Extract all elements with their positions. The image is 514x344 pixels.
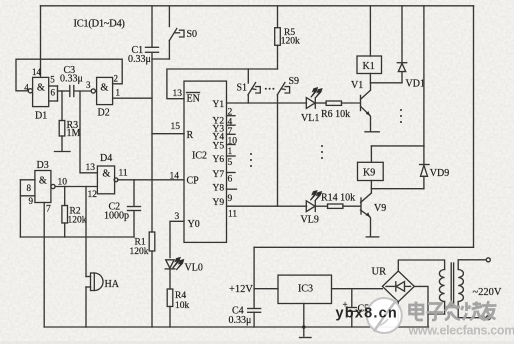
svg-text:VD1: VD1: [406, 79, 425, 90]
pin stub Y8: [227, 188, 237, 190]
svg-text:120k: 120k: [130, 247, 149, 257]
wire D3 output to D4: [55, 186, 97, 188]
wire stub to ground rail: [427, 314, 429, 327]
wire VL0 to R4: [169, 269, 171, 289]
bridge rectifier UR: [382, 271, 414, 302]
switch S1: [247, 69, 249, 83]
wire VL1 to R6: [315, 102, 326, 104]
svg-text:HA: HA: [105, 279, 120, 290]
pin stub Y3: [227, 124, 236, 126]
LED VL9: [306, 201, 315, 212]
svg-text:7: 7: [228, 127, 233, 137]
svg-text:D1: D1: [35, 111, 47, 122]
capacitor C2: [133, 180, 135, 206]
wire +12V stub to IC3: [254, 288, 278, 290]
resistor R5: [277, 6, 279, 28]
capacitor C4: [248, 308, 261, 310]
svg-text:S9: S9: [289, 76, 300, 87]
svg-text:9: 9: [228, 194, 233, 204]
svg-text:0.33μ: 0.33μ: [128, 54, 151, 65]
wire +12V drop to IC3: [253, 247, 255, 308]
ground IC3: [300, 337, 312, 339]
LED VL0: [166, 260, 174, 268]
resistor R1: [149, 232, 155, 251]
svg-text:V9: V9: [374, 203, 386, 214]
wire R4 to ground rail: [169, 307, 171, 328]
svg-text:11: 11: [119, 168, 128, 178]
svg-text:R: R: [187, 130, 194, 141]
diode VD9: [423, 146, 425, 164]
wire R net to oscillator: [152, 133, 184, 135]
wire gnd-side horizontal net: [20, 236, 134, 238]
svg-text:~220V: ~220V: [473, 287, 502, 298]
wire V9 collector to K9: [370, 181, 372, 194]
svg-text:V1: V1: [351, 80, 363, 91]
svg-text:1M: 1M: [67, 128, 81, 139]
svg-text:IC2: IC2: [192, 151, 207, 162]
svg-text:11: 11: [228, 210, 237, 220]
wire V9 emitter to ground: [370, 217, 371, 236]
wire D1 output feedback loop: [16, 59, 122, 91]
svg-text:&: &: [39, 176, 47, 187]
wire D3 input tie down: [19, 180, 21, 237]
relay K9: [358, 162, 384, 180]
svg-text:K1: K1: [363, 61, 375, 72]
wire D2 output: [113, 97, 152, 99]
svg-text:1: 1: [116, 88, 121, 98]
diode VD1: [401, 6, 403, 63]
wire IC3 out right: [332, 288, 383, 290]
svg-text:VL9: VL9: [301, 215, 319, 226]
svg-text:3: 3: [86, 80, 91, 90]
speaker HA: [85, 187, 87, 277]
svg-text:VD9: VD9: [430, 168, 449, 179]
pin stub Y4: [227, 133, 236, 135]
pin 4 bubble D1: [28, 89, 32, 93]
wire V1 collector to K1: [370, 83, 372, 90]
watermark circle logo: [367, 298, 402, 333]
transformer T secondary: [439, 270, 444, 302]
dots right of IC2: [250, 153, 252, 155]
LED VL9 arrows: [310, 191, 316, 200]
capacitor C5: [351, 289, 353, 307]
svg-text:&: &: [37, 82, 45, 93]
wire R1 to ground rail: [151, 251, 153, 327]
wire R6 to V1 base: [342, 102, 360, 104]
svg-text:Y0: Y0: [188, 219, 200, 230]
svg-text:&: &: [101, 82, 109, 93]
svg-text:120k: 120k: [281, 36, 300, 46]
svg-text:6: 6: [228, 175, 233, 185]
capacitor C3: [69, 86, 71, 97]
svg-text:Y1: Y1: [213, 100, 225, 110]
wire bridge bottom to ground rail: [397, 302, 399, 327]
svg-text:8: 8: [27, 183, 32, 193]
transistor V1: [360, 96, 362, 111]
svg-text:+12V: +12V: [229, 284, 253, 295]
svg-text:0.33μ: 0.33μ: [60, 74, 83, 85]
gate D4: [97, 166, 114, 194]
svg-text:1000p: 1000p: [104, 211, 129, 222]
pin 10 bubble D3: [51, 184, 55, 188]
transformer core: [450, 263, 452, 305]
svg-text:13: 13: [173, 89, 183, 99]
svg-text:9: 9: [29, 196, 34, 206]
svg-text:10k: 10k: [175, 301, 190, 311]
pin 6 stub D1: [49, 100, 58, 102]
svg-text:0.33μ: 0.33μ: [229, 315, 252, 326]
wire primary top to terminal: [458, 260, 486, 270]
pin stub Y5: [227, 144, 236, 146]
pin 8 stub D3: [20, 179, 35, 181]
svg-text:5: 5: [228, 158, 233, 168]
wire oscillator node vertical: [151, 54, 153, 233]
wire D4 output to CP: [118, 179, 184, 181]
svg-text:R4: R4: [175, 291, 186, 301]
switch S9: [277, 83, 285, 95]
wire R14 to V9 base: [343, 205, 360, 207]
wire +12V horizontal return: [254, 246, 473, 248]
wire Y9 net: [227, 205, 307, 207]
pin stub Y6: [227, 155, 236, 157]
wire primary bottom to terminal: [458, 302, 486, 318]
ground V9: [366, 236, 378, 238]
svg-text:S0: S0: [187, 29, 198, 40]
svg-text:Y6: Y6: [213, 155, 225, 165]
resistor R14: [328, 204, 343, 208]
capacitor C1: [151, 6, 153, 47]
watermark CJK char you: [481, 301, 497, 320]
switch S0: [168, 6, 170, 27]
wire S9 down to Y9: [277, 95, 279, 206]
svg-text:Y8: Y8: [213, 184, 225, 194]
svg-text:VL0: VL0: [185, 263, 203, 274]
wire bridge right to transformer bottom: [414, 286, 444, 314]
watermark CJK char fa: [445, 301, 460, 320]
svg-text:12: 12: [88, 190, 98, 200]
svg-text:15: 15: [171, 122, 181, 132]
ground V1: [365, 131, 379, 133]
relay K1: [357, 56, 382, 74]
wire Y1 net: [227, 102, 307, 104]
svg-text:UR: UR: [372, 267, 387, 278]
svg-text:&: &: [103, 169, 111, 180]
svg-text:R1: R1: [135, 238, 146, 248]
svg-text:EN: EN: [187, 94, 200, 105]
wire S0 to C1 bottom: [152, 58, 169, 60]
LED VL0 arrows: [173, 258, 180, 269]
LED VL1: [306, 98, 315, 109]
svg-text:IC3: IC3: [298, 284, 313, 295]
svg-text:www.elecfans.com: www.elecfans.com: [408, 324, 514, 338]
gate D1: [33, 77, 49, 106]
wire top +12V rail: [41, 5, 474, 7]
scan bottom edge: [0, 341, 514, 344]
svg-text:120k: 120k: [68, 216, 87, 226]
pin 13 wire D4: [80, 91, 97, 173]
pin 3 bubble D2: [91, 89, 95, 93]
wire ground bottom rail: [44, 326, 428, 328]
svg-text:5: 5: [50, 74, 55, 84]
svg-text:7: 7: [46, 204, 51, 214]
svg-text:13: 13: [86, 163, 96, 173]
svg-text:D4: D4: [100, 153, 112, 164]
svg-text:IC1(D1~D4): IC1(D1~D4): [74, 19, 126, 30]
svg-text:ybx8.cn: ybx8.cn: [336, 306, 398, 322]
wire right +12V rail vertical: [473, 6, 475, 248]
wire D3 pin7 ground: [43, 203, 45, 328]
svg-text:14: 14: [32, 67, 42, 77]
watermark CJK char dian: [410, 302, 424, 321]
wire EN net: [167, 69, 278, 99]
svg-text:4: 4: [228, 118, 233, 128]
transformer T primary: [458, 270, 463, 302]
IC2 box: [184, 81, 227, 242]
svg-text:CP: CP: [187, 176, 200, 187]
wire IC3 ground pin: [303, 304, 305, 337]
wire Y0 net: [170, 221, 184, 257]
dots below VD1: [400, 109, 402, 111]
svg-text:3: 3: [175, 212, 180, 222]
pin stub Y2: [227, 115, 236, 117]
svg-text:Y7: Y7: [213, 170, 225, 180]
wire V1 emitter to ground: [369, 115, 372, 131]
resistor R4: [167, 289, 173, 307]
wire VD9 bottom to K9 bottom: [371, 188, 424, 190]
transistor V9: [360, 198, 362, 214]
pin 9 stub D3: [20, 195, 35, 197]
LED VL1 arrows: [311, 88, 317, 97]
pin 11 bubble D4: [114, 178, 118, 182]
dots between S1 S9: [265, 88, 267, 90]
resistor R6: [326, 101, 341, 105]
svg-text:Y9: Y9: [213, 198, 225, 208]
svg-text:D3: D3: [37, 160, 49, 171]
svg-text:K9: K9: [363, 168, 375, 179]
wire D1 pin14 to rail: [40, 6, 42, 78]
gate D2: [97, 77, 113, 104]
wire D1 to C3: [58, 90, 70, 92]
svg-text:2: 2: [114, 74, 119, 84]
IC3 box: [278, 275, 332, 303]
svg-text:S1: S1: [237, 83, 248, 94]
wire K9 top to rail drop: [371, 145, 424, 147]
svg-text:R6 10k: R6 10k: [321, 109, 350, 120]
wire C3 to D2 input: [74, 90, 91, 92]
svg-text:VL1: VL1: [301, 113, 319, 124]
svg-text:R14 10k: R14 10k: [321, 193, 355, 204]
wire VL9 to R14: [315, 205, 327, 207]
gate D3: [35, 171, 51, 203]
svg-text:D2: D2: [98, 108, 110, 119]
svg-text:6: 6: [51, 88, 56, 98]
junction dot IC3 ground: [302, 325, 306, 329]
dots middle row: [321, 145, 323, 147]
watermark CJK char zi: [427, 304, 444, 321]
resistor R3: [61, 91, 63, 121]
wire D1 input tie: [57, 86, 59, 101]
watermark CJK char shao: [462, 302, 485, 321]
wire bridge top to transformer: [398, 260, 444, 271]
pin 5 stub D1: [49, 85, 58, 87]
pin stub Y7: [227, 172, 236, 174]
resistor R2: [64, 187, 66, 206]
ground below R3: [55, 151, 71, 153]
svg-text:Y5: Y5: [213, 142, 225, 152]
